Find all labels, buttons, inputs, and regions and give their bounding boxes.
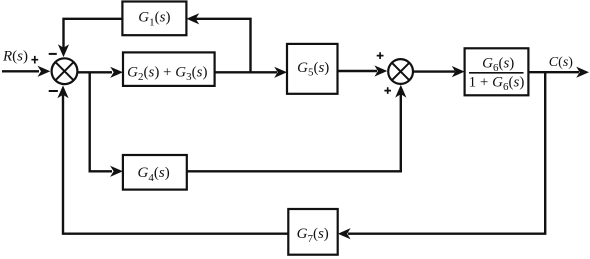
svg-text:G1(s): G1(s) xyxy=(138,10,170,29)
arrowhead into G7 right xyxy=(338,228,351,239)
arrowhead into S1 bottom xyxy=(57,85,68,98)
svg-text:1 + G6(s): 1 + G6(s) xyxy=(469,75,525,94)
arrowhead into S1 top xyxy=(58,44,69,57)
summing junction S2 xyxy=(388,59,413,84)
block G2+G3 xyxy=(123,52,215,86)
arrowhead into S2 left xyxy=(374,65,387,76)
sign plus at S2 bottom xyxy=(384,87,391,94)
arrowhead into S1 left xyxy=(38,66,51,77)
arrowhead into G4 left xyxy=(110,166,123,177)
wire S2 to G6 xyxy=(413,70,455,72)
wire feedback takeoff down right xyxy=(348,72,545,234)
wire input R(s) xyxy=(2,70,39,72)
svg-text:C(s): C(s) xyxy=(549,55,573,70)
arrowhead into G1 right xyxy=(186,13,199,24)
arrowhead into G2 left xyxy=(110,67,123,78)
svg-text:G4(s): G4(s) xyxy=(138,165,170,184)
sign minus at S1 bottom xyxy=(49,90,58,92)
sign plus at S2 top xyxy=(377,52,384,59)
block G7 xyxy=(288,209,337,255)
wire G5 to S2 xyxy=(338,70,378,72)
wire G4 output to S2 bottom xyxy=(187,94,401,171)
sign minus at S1 top xyxy=(49,53,57,55)
arrowhead output C(s) xyxy=(576,67,589,78)
svg-text:G5(s): G5(s) xyxy=(297,60,329,79)
fraction bar in G6 xyxy=(469,72,524,74)
block G6 closed-loop xyxy=(465,48,529,95)
svg-text:R(s): R(s) xyxy=(2,49,28,65)
wire G2 to G5 xyxy=(215,71,277,73)
svg-text:G6(s): G6(s) xyxy=(482,55,514,74)
wire S1 to G2 xyxy=(78,71,113,73)
arrowhead into G6 left xyxy=(452,66,465,77)
arrowhead into G5 left xyxy=(274,67,287,78)
wire G6 output to C(s) xyxy=(528,71,579,73)
wire G7 output to S1 bottom xyxy=(63,95,288,234)
svg-text:G7(s): G7(s) xyxy=(297,226,329,245)
sign plus at S1 input xyxy=(31,56,38,64)
block G1 xyxy=(122,2,186,36)
block G5 xyxy=(287,44,338,94)
summing junction S1 xyxy=(52,58,78,84)
block G4 xyxy=(123,155,187,190)
wire G1 output to S1 top xyxy=(64,19,123,48)
wire G4 branch xyxy=(90,72,112,171)
wire G1 takeoff vertical xyxy=(192,19,251,73)
arrowhead into S2 bottom xyxy=(395,85,406,98)
